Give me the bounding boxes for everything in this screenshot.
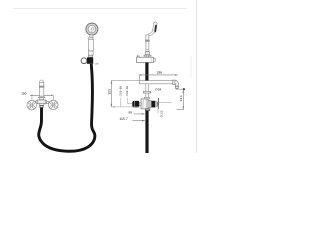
dim 54 arrows [143, 55, 152, 57]
hose nipple (front) [40, 106, 43, 108]
mixer top collar (side) [144, 97, 149, 99]
handle line (side) [146, 48, 149, 50]
shower handle lower (front) [89, 51, 94, 55]
right handle (front) [49, 100, 59, 110]
elbow nut (side) [175, 86, 178, 88]
holder body (side) [137, 57, 154, 62]
svg-text:114: 114 [179, 95, 183, 102]
bracket block (front) [87, 57, 93, 63]
holder wall tab (side) [154, 58, 156, 61]
left arm pipe (front) [34, 101, 37, 103]
head elbow (side) [148, 32, 153, 35]
mixer body taper (front) [39, 104, 45, 106]
svg-text:∅55-60: ∅55-60 [120, 85, 123, 96]
G1/2 extension line [157, 105, 159, 113]
horizontal pipe (side) [139, 81, 173, 84]
hose (front, one run from bracket to mixer) [39, 64, 95, 151]
mixer body cone (front) [40, 98, 44, 100]
wall line (side) [157, 98, 159, 109]
shower handle nut (front) [88, 55, 92, 57]
mixer body (side) [141, 99, 148, 109]
mixer body mid (front) [37, 100, 46, 104]
riser tube (front) [40, 82, 44, 96]
hose nut stub above holder (side) [146, 55, 149, 57]
pipe fitting (side) [173, 80, 175, 85]
extension bottom to mixer [111, 106, 140, 108]
wall union black (side) [151, 101, 155, 108]
holder inner line right [150, 57, 152, 62]
svg-text:∅42-50: ∅42-50 [126, 85, 129, 96]
wall pipe cap (side) [138, 75, 140, 83]
handle nut (side) [145, 52, 150, 55]
svg-text:105: 105 [108, 88, 112, 94]
shower handle (front) [88, 39, 93, 51]
leader bottom right [177, 109, 184, 111]
mixer bottom nipple (side) [145, 109, 149, 111]
bracket ring (front) [81, 58, 87, 64]
pipe elbow (side) [175, 80, 179, 86]
hose upper drop (side) [145, 63, 148, 81]
dim 105 vertical line [111, 80, 113, 107]
inwall supply centerline (side) [159, 102, 172, 104]
dim 150 extension left [31, 96, 33, 100]
leader col2 to knob [128, 103, 133, 105]
union spacer (side) [155, 102, 156, 107]
riser joint band (front) [39, 86, 44, 87]
svg-text:∅25: ∅25 [95, 63, 100, 66]
knob stem (side) [139, 103, 141, 106]
vertical dim line right [182, 90, 184, 110]
svg-text:∅24: ∅24 [155, 87, 161, 91]
union second ring (side) [156, 102, 159, 106]
riser below pipe (side) [146, 84, 149, 99]
left handle (front) [27, 100, 37, 110]
dim 115.7 line [132, 120, 145, 122]
leader col1 down [120, 98, 122, 107]
shower neck (front) [90, 35, 94, 37]
svg-text:G1/2: G1/2 [160, 110, 164, 117]
right arm nut (front) [45, 101, 46, 104]
svg-text:115.7: 115.7 [119, 117, 127, 121]
shower handle collar (front) [89, 37, 93, 39]
extension top to pipe [111, 80, 139, 82]
dim 150 line with arrows [30, 95, 54, 97]
dim 298 line with arrows [139, 74, 178, 76]
dim 99 line [134, 113, 145, 115]
shower head capsule (side) [152, 22, 157, 33]
riser flare (front) [38, 96, 45, 97]
svg-text:298: 298 [157, 70, 162, 74]
svg-text:150: 150 [21, 91, 26, 95]
page border right [196, 0, 198, 153]
page border top [13, 8, 187, 10]
dim 150 extension right [52, 96, 54, 99]
left arm nut (front) [36, 101, 37, 104]
leader to elbow dim [179, 88, 184, 90]
knob black (side) [132, 101, 139, 108]
dim 298 right extension [190, 56, 192, 78]
handle (side) [146, 35, 149, 52]
shower head (front) [86, 23, 98, 35]
handle joint band (side) [146, 40, 150, 41]
hose lower drop (side) [145, 111, 148, 153]
flange rosette (side) [148, 100, 151, 108]
riser nut (side) [143, 91, 150, 93]
right arm pipe (front) [46, 101, 49, 103]
leader col2 down [127, 98, 129, 104]
svg-text:99: 99 [129, 111, 133, 115]
riser cap (front) [40, 80, 44, 82]
